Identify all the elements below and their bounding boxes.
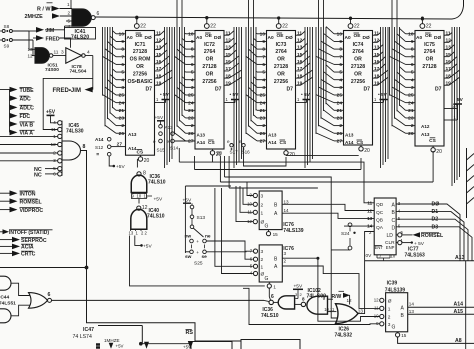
svg-text:OR: OR xyxy=(136,64,144,70)
svg-text:OS ROM: OS ROM xyxy=(130,57,151,63)
svg-text:FRED: FRED xyxy=(46,36,60,42)
svg-text:4: 4 xyxy=(262,77,265,83)
svg-text:CS: CS xyxy=(429,138,436,144)
switch block outline xyxy=(185,186,231,253)
svg-text:sw: sw xyxy=(185,255,192,260)
svg-text:R / W: R / W xyxy=(37,7,51,13)
IC75 pin 20 chip-select (active low) xyxy=(431,146,442,155)
IC74 pin 1 Vpp tied to +5V xyxy=(373,92,388,102)
counter IC77 74LS163 xyxy=(367,198,403,255)
svg-text:12: 12 xyxy=(374,297,379,302)
svg-text:ROMSEL: ROMSEL xyxy=(20,199,43,205)
svg-text:D7: D7 xyxy=(287,87,294,93)
svg-text:8: 8 xyxy=(411,47,414,53)
jumper S12 selecting A14/+5V for IC71 pin 27 xyxy=(95,137,125,170)
wire A14 output to right edge xyxy=(408,302,474,308)
svg-text:13: 13 xyxy=(284,199,290,204)
svg-text:2: 2 xyxy=(261,202,264,208)
wire into IC76a pin 9 from bus xyxy=(247,182,253,196)
svg-text:3: 3 xyxy=(121,85,124,91)
svg-text:DØ: DØ xyxy=(363,35,370,41)
svg-text:25: 25 xyxy=(260,93,266,99)
svg-text:D7: D7 xyxy=(215,87,222,93)
wire long input to IC39 pin 9 xyxy=(243,288,380,324)
svg-text:D3: D3 xyxy=(432,224,439,230)
svg-text:24: 24 xyxy=(260,100,266,106)
signal R/W with arrow into IC41 pin 1 xyxy=(37,0,72,13)
svg-text:ENP: ENP xyxy=(386,245,395,250)
IC75 address pins (10,9,8,7,6,5,4,3,25,24,21,23,2,26,27) with fan-in wires xyxy=(390,0,416,137)
svg-text:6: 6 xyxy=(48,292,51,298)
svg-text:3: 3 xyxy=(339,85,342,91)
signal JIM with arrow xyxy=(29,26,65,34)
wire into IC76a pin 11 xyxy=(240,186,253,212)
svg-text:A13: A13 xyxy=(345,133,354,138)
svg-text:INTOFF (STATID): INTOFF (STATID) xyxy=(9,230,49,236)
svg-text:8: 8 xyxy=(302,296,305,301)
svg-text:ROMSEL: ROMSEL xyxy=(421,233,444,239)
svg-text:FRED•JIM: FRED•JIM xyxy=(53,88,81,94)
svg-text:74LS10: 74LS10 xyxy=(147,214,165,220)
svg-text:74LS163: 74LS163 xyxy=(405,252,426,258)
ROM IC75 (2764/OR/27128) xyxy=(415,31,444,147)
svg-text:74LS30: 74LS30 xyxy=(66,129,84,135)
switch S13 with +5V xyxy=(183,197,206,237)
svg-text:DØ: DØ xyxy=(145,35,152,41)
svg-text:A13: A13 xyxy=(421,132,430,137)
label IC47 74LS74 xyxy=(73,327,95,340)
svg-text:S25: S25 xyxy=(194,260,203,266)
svg-text:74LS32: 74LS32 xyxy=(335,332,353,338)
svg-text:OE: OE xyxy=(354,33,362,39)
svg-text:1: 1 xyxy=(388,306,391,312)
NAND gate IC45 74LS30 (8-input, bubbled inputs) xyxy=(0,120,87,267)
svg-text:27256: 27256 xyxy=(133,71,147,77)
label RS with arrow xyxy=(186,329,194,349)
wire IC102 pin 11 into IC26 xyxy=(330,311,336,313)
IC71 data pins (11,12,13,15,16,17,18,19) with fan-out wires xyxy=(155,27,173,168)
IC72 address pins (10,9,8,7,6,5,4,3,25,24,21,23,2,26,27) with fan-in wires xyxy=(175,0,196,145)
svg-text:26: 26 xyxy=(188,131,194,137)
svg-text:A14: A14 xyxy=(268,140,277,145)
svg-text:6: 6 xyxy=(191,62,194,68)
svg-text:11: 11 xyxy=(54,49,59,55)
svg-text:27128: 27128 xyxy=(202,64,216,70)
wire S24 bottom to IC26 input xyxy=(331,249,350,251)
svg-text:A8: A8 xyxy=(455,338,462,344)
inverter IC78 74LS04 xyxy=(66,48,93,75)
svg-text:20: 20 xyxy=(289,152,295,158)
IC71 pin 1 Vpp tied to +5V xyxy=(155,92,170,102)
svg-text:22: 22 xyxy=(282,24,288,30)
svg-text:10: 10 xyxy=(337,31,343,37)
svg-text:26: 26 xyxy=(408,131,414,137)
svg-text:A13: A13 xyxy=(128,132,137,137)
svg-text:OR: OR xyxy=(354,57,362,63)
svg-text:22: 22 xyxy=(210,24,216,30)
svg-text:CS: CS xyxy=(357,140,364,146)
wire IC40 pin 1 to +5V xyxy=(135,236,153,250)
svg-text:S13: S13 xyxy=(197,215,206,221)
wire IC40 pin 13 down to IC76b G input xyxy=(130,236,265,286)
svg-text:8: 8 xyxy=(83,144,86,150)
svg-text:2: 2 xyxy=(411,123,414,129)
svg-text:+: + xyxy=(196,239,199,244)
svg-text:4: 4 xyxy=(53,120,56,126)
svg-text:D: D xyxy=(392,225,396,231)
IC73 address pins (10,9,8,7,6,5,4,3,25,24,21,23,2,26,27) with fan-in wires xyxy=(246,0,267,145)
svg-text:IC44: IC44 xyxy=(0,295,9,301)
IC73 pin 1 Vpp tied to +5V xyxy=(296,92,311,102)
svg-text:+5V: +5V xyxy=(143,244,152,250)
IC72 data pins (11,12,13,15,16,17,18,19) with fan-out wires xyxy=(224,27,242,168)
svg-text:=: = xyxy=(96,152,99,158)
svg-text:D7: D7 xyxy=(364,87,371,93)
IC74 data pins (11,12,13,15,16,17,18,19) with fan-out wires xyxy=(373,27,389,168)
svg-text:A0: A0 xyxy=(345,35,351,41)
svg-text:DØ: DØ xyxy=(286,35,293,41)
svg-text:74LS139: 74LS139 xyxy=(283,228,304,234)
svg-text:CS: CS xyxy=(280,140,287,146)
signal FRED with arrow xyxy=(33,35,71,48)
svg-text:0V: 0V xyxy=(366,253,373,259)
svg-text:12: 12 xyxy=(367,208,373,213)
svg-text:• 5V: • 5V xyxy=(160,92,170,98)
wire into IC76a pin 10 from bus xyxy=(243,188,253,204)
svg-text:9: 9 xyxy=(411,39,414,45)
svg-text:S17: S17 xyxy=(230,150,239,155)
svg-text:23: 23 xyxy=(188,116,194,122)
svg-text:27: 27 xyxy=(188,139,194,145)
svg-text:8: 8 xyxy=(339,47,342,53)
svg-text:7: 7 xyxy=(121,54,124,60)
svg-text:21: 21 xyxy=(260,108,266,114)
IC73 pin 22 OE input xyxy=(276,17,288,30)
svg-text:OR: OR xyxy=(277,57,285,63)
svg-text:2: 2 xyxy=(121,123,124,129)
svg-text:7: 7 xyxy=(191,54,194,60)
svg-text:CRTC: CRTC xyxy=(21,252,36,258)
svg-text:11: 11 xyxy=(367,201,372,206)
IC77 CLR bubble to +5V xyxy=(396,241,425,247)
svg-text:4: 4 xyxy=(121,77,124,83)
svg-text:• 5V: • 5V xyxy=(378,92,388,98)
jumper block S17/S16 xyxy=(216,139,250,157)
svg-text:1MHZE: 1MHZE xyxy=(104,338,120,343)
NAND gate IC102 74LS00 (output left) xyxy=(301,288,335,314)
IC73 pin 20 chip-select (active low) xyxy=(284,149,295,158)
svg-text:S8: S8 xyxy=(4,24,10,29)
svg-text:se: se xyxy=(202,255,208,260)
IC77 pin 2 clock wire from IC26 output xyxy=(358,232,374,314)
wire IC76a output 14 to IC77 pin 13 xyxy=(282,213,374,218)
svg-text:S12: S12 xyxy=(95,145,104,150)
svg-text:2764: 2764 xyxy=(204,49,215,55)
svg-text:R/W: R/W xyxy=(332,294,342,300)
IC72 pin 20 chip-select (active low) xyxy=(210,149,221,158)
signal CRTC with arrow xyxy=(0,251,36,258)
svg-text:12: 12 xyxy=(347,298,353,303)
svg-text:+5V: +5V xyxy=(116,164,125,170)
svg-text:23: 23 xyxy=(260,116,266,122)
svg-text:10: 10 xyxy=(260,31,266,37)
svg-text:24: 24 xyxy=(119,100,125,106)
svg-text:A0: A0 xyxy=(196,35,202,41)
component box at bottom right edge (cut off) xyxy=(241,340,300,349)
svg-text:27128: 27128 xyxy=(133,49,147,55)
svg-text:e: e xyxy=(239,139,242,144)
wire IC71 pin 20 to IC36 output xyxy=(136,159,138,168)
wire feeds to IC76b pins 5 and 4 xyxy=(215,188,253,274)
svg-text:15: 15 xyxy=(401,333,407,338)
svg-text:OR: OR xyxy=(206,57,214,63)
svg-text:VIDPROC: VIDPROC xyxy=(20,208,44,214)
svg-text:13: 13 xyxy=(129,230,134,235)
signal ACIA with arrow xyxy=(0,244,34,251)
svg-text:74S00: 74S00 xyxy=(45,67,59,73)
svg-text:25: 25 xyxy=(119,93,125,99)
svg-text:+5V: +5V xyxy=(116,343,124,348)
svg-text:ADC: ADC xyxy=(20,97,31,103)
svg-text:10: 10 xyxy=(391,253,396,258)
svg-text:20: 20 xyxy=(364,148,370,154)
wire ne contact to IC76b pin 6 xyxy=(206,241,253,259)
svg-text:SERPROC: SERPROC xyxy=(21,238,47,244)
jumper S8 xyxy=(0,24,29,33)
wire routing y=182 to IC75 pin 20 xyxy=(220,151,433,182)
svg-text:D1: D1 xyxy=(432,209,439,215)
svg-text:ACIA: ACIA xyxy=(21,245,34,251)
svg-text:IC76: IC76 xyxy=(283,246,294,252)
svg-text:14: 14 xyxy=(409,302,415,307)
svg-text:3: 3 xyxy=(388,322,391,328)
label IC77 74LS163 xyxy=(405,246,426,258)
svg-text:G: G xyxy=(265,276,269,282)
svg-text:A0: A0 xyxy=(127,35,133,41)
svg-text:VIA B: VIA B xyxy=(20,122,34,128)
svg-text:A13: A13 xyxy=(197,133,206,138)
wire IC76b output 2 down to IC39 xyxy=(282,266,379,308)
svg-text:2MHZE: 2MHZE xyxy=(25,14,44,20)
svg-text:21: 21 xyxy=(408,108,414,114)
svg-text:22: 22 xyxy=(354,24,360,30)
svg-text:5: 5 xyxy=(262,70,265,76)
label R/W with arrow into IC26 xyxy=(332,291,351,304)
svg-text:24: 24 xyxy=(337,100,343,106)
svg-text:10: 10 xyxy=(188,31,194,37)
svg-text:12: 12 xyxy=(142,205,148,211)
label 1MHZE with clock arrow xyxy=(104,338,120,349)
signal INTON with arrow xyxy=(0,190,36,197)
svg-text:G: G xyxy=(265,224,269,230)
svg-text:A0: A0 xyxy=(268,35,274,41)
svg-text:21: 21 xyxy=(188,108,194,114)
svg-text:A14: A14 xyxy=(454,302,464,308)
wire CS routing from S-block to IC77 (y=162) xyxy=(179,148,374,203)
svg-text:DØ: DØ xyxy=(214,35,221,41)
svg-text:10: 10 xyxy=(119,31,125,37)
svg-text:6: 6 xyxy=(121,62,124,68)
svg-text:2 2: 2 2 xyxy=(141,230,147,235)
svg-text:OR: OR xyxy=(277,71,285,77)
svg-text:4: 4 xyxy=(191,77,194,83)
svg-text:A14: A14 xyxy=(197,140,206,145)
IC77 LD bubble to ROMSEL xyxy=(396,232,444,239)
wire routing y=177 into S24/IC26 net xyxy=(225,156,332,250)
svg-text:DØ: DØ xyxy=(432,202,440,208)
svg-text:A0: A0 xyxy=(416,35,422,41)
svg-text:VIA A: VIA A xyxy=(20,131,34,137)
ROM IC73 (2764/OR/27128/OR/27256) xyxy=(267,31,296,150)
+5V pullup above IC36b xyxy=(293,283,303,298)
svg-text:9: 9 xyxy=(121,39,124,45)
svg-text:9: 9 xyxy=(191,39,194,45)
signal TUBE with arrow xyxy=(10,87,35,94)
label FRED-JIM with arrow xyxy=(53,87,93,94)
wire IC44 line into IC36b output bubble xyxy=(264,300,269,301)
svg-text:14: 14 xyxy=(284,208,290,213)
svg-text:7: 7 xyxy=(262,54,265,60)
svg-text:74LS04: 74LS04 xyxy=(70,68,87,74)
svg-text:9: 9 xyxy=(262,39,265,45)
svg-text:FDC: FDC xyxy=(20,114,31,120)
svg-text:27256: 27256 xyxy=(202,79,216,85)
wire IC76a output 13 to IC77 pin 12 xyxy=(282,204,374,210)
svg-text:OE: OE xyxy=(136,33,144,39)
decoder IC39 74LS139 xyxy=(374,280,415,338)
svg-text:26: 26 xyxy=(260,131,266,137)
wire A8 from IC39 pin 15 to right edge xyxy=(398,337,474,344)
svg-text:27: 27 xyxy=(260,139,266,145)
svg-text:20: 20 xyxy=(144,158,150,164)
decoder IC76b 74LS139 xyxy=(250,245,294,290)
signal ADLC with arrow xyxy=(10,105,35,112)
svg-text:1: 1 xyxy=(261,210,264,216)
wire routing y=188 down to IC76b output join xyxy=(229,156,318,188)
svg-text:OE: OE xyxy=(205,33,213,39)
svg-text:CS: CS xyxy=(208,140,215,146)
svg-text:1: 1 xyxy=(261,264,264,270)
signal FDC with arrow xyxy=(10,113,31,120)
IC74 address pins (10,9,8,7,6,5,4,3,25,24,21,23,2,26,27) with fan-in wires xyxy=(316,0,344,145)
jumper block S15/S14 with +5V and A13 (ROM size select) xyxy=(153,115,195,153)
svg-text:10: 10 xyxy=(137,194,142,199)
svg-text:8: 8 xyxy=(143,171,146,177)
wire A13 line to right edge xyxy=(365,255,474,349)
svg-text:+5V: +5V xyxy=(154,197,163,203)
svg-text:25: 25 xyxy=(188,93,194,99)
svg-text:27256: 27256 xyxy=(274,79,288,85)
svg-text:D2: D2 xyxy=(432,217,439,223)
svg-text:4: 4 xyxy=(87,49,90,55)
svg-text:12: 12 xyxy=(28,54,34,59)
svg-text:4: 4 xyxy=(339,77,342,83)
svg-text:OR: OR xyxy=(206,71,214,77)
svg-text:7: 7 xyxy=(411,54,414,60)
NC pins of IC45 xyxy=(34,167,58,178)
svg-text:26: 26 xyxy=(337,131,343,137)
svg-text:3: 3 xyxy=(262,85,265,91)
jumper S9 xyxy=(0,39,33,49)
signal ROMSEL with arrow xyxy=(0,198,43,205)
wire CS routing IC73 (horizontal bus) xyxy=(286,155,359,157)
svg-text:S24: S24 xyxy=(341,231,350,237)
right edge data bus with taps xyxy=(467,148,474,218)
signal ADC with arrow xyxy=(10,95,31,102)
ROM IC74 (2764/OR/27128/OR/27256) xyxy=(344,31,373,147)
NAND gate IC36b 74LS10 (output left) xyxy=(261,294,295,319)
svg-text:TUBE: TUBE xyxy=(20,88,35,94)
svg-text:8: 8 xyxy=(191,47,194,53)
svg-text:C: C xyxy=(392,218,396,224)
svg-text:nw: nw xyxy=(185,235,192,240)
wire DØ from IC77 to data bus xyxy=(396,202,460,261)
junction dot and wire at IC47 box output xyxy=(139,342,191,346)
svg-text:74 LS74: 74 LS74 xyxy=(73,334,92,340)
svg-text:8: 8 xyxy=(262,47,265,53)
svg-text:A13: A13 xyxy=(165,125,174,130)
ROM IC71 (27128/OS ROM/OR/27256/OS•BASIC) xyxy=(126,31,155,156)
svg-text:e: e xyxy=(153,139,156,144)
svg-text:25: 25 xyxy=(408,93,414,99)
svg-text:A13: A13 xyxy=(455,255,465,261)
svg-text:4: 4 xyxy=(411,77,414,83)
svg-text:OE: OE xyxy=(277,33,285,39)
wire input bus for peripheral select signals xyxy=(0,90,10,133)
svg-text:IC71: IC71 xyxy=(135,42,146,48)
svg-text:QD: QD xyxy=(376,202,384,208)
svg-text:+5V: +5V xyxy=(294,283,303,289)
svg-text:e: e xyxy=(167,139,170,144)
svg-text:INTON: INTON xyxy=(20,191,36,197)
NAND gate IC41 74LS20 xyxy=(65,9,100,41)
svg-text:27128: 27128 xyxy=(274,64,288,70)
wire IC76b pin1 down into IC36b output bubble xyxy=(269,288,270,300)
svg-text:+: + xyxy=(196,250,199,255)
wire se contact to IC76b pin 7 xyxy=(206,250,253,253)
svg-text:25: 25 xyxy=(337,93,343,99)
svg-text:DØ: DØ xyxy=(434,35,441,41)
wire A15 output to right edge xyxy=(408,309,474,315)
component box at bottom edge (cut off) xyxy=(183,342,232,349)
svg-text:27128: 27128 xyxy=(422,64,436,70)
svg-text:CS: CS xyxy=(137,149,144,155)
svg-text:S9: S9 xyxy=(4,44,10,49)
junction IC76b output at routing xyxy=(316,257,319,260)
IC71 pin 20 chip-select (active low) xyxy=(138,155,149,164)
NAND gate IC36 74LS10 (output up to IC71 CS) xyxy=(131,171,165,203)
svg-text:10: 10 xyxy=(408,31,414,37)
ROM IC72 (2764/OR/27128/OR/27256) xyxy=(195,31,224,150)
svg-text:A12: A12 xyxy=(421,124,430,129)
svg-text:IC72: IC72 xyxy=(204,42,215,48)
svg-text:20: 20 xyxy=(436,149,442,155)
svg-text:OR: OR xyxy=(426,57,434,63)
wire IC44b output to NOR input xyxy=(11,305,30,316)
IC75 pin 22 OE input xyxy=(420,17,432,30)
wire S8 to IC51 pin 13 xyxy=(29,31,32,49)
svg-text:13: 13 xyxy=(367,216,373,221)
svg-text:• 5V: • 5V xyxy=(301,92,311,98)
wire OE line from IC41 output to all ROM pin-22 inputs xyxy=(96,0,464,20)
IC72 pin 22 OE input xyxy=(204,17,216,30)
IC75 pin 1 Vpp tied to +5V xyxy=(444,97,464,120)
svg-text:22: 22 xyxy=(140,24,146,30)
svg-text:3: 3 xyxy=(411,85,414,91)
svg-text:3: 3 xyxy=(61,49,64,55)
wire D3 from IC77 to data bus xyxy=(396,224,472,260)
svg-text:2: 2 xyxy=(261,257,264,263)
